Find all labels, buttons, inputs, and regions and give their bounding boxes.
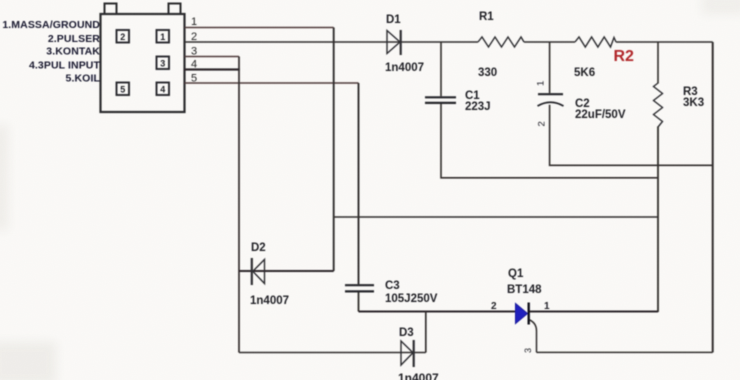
diode D1 [387, 30, 401, 55]
connector cavity 1 [157, 30, 170, 43]
thyristor Q1 (SCR) [516, 303, 529, 325]
wire middle horizontal (pin1 rail to R3 branch) [334, 216, 658, 218]
wire main net segment D (R2 to right corner) [616, 41, 713, 43]
wire Q1 gate lead [529, 320, 537, 353]
wire C1 top lead [440, 42, 442, 96]
wire R3 top lead [657, 42, 659, 84]
wire D3 branch vertical [425, 312, 427, 353]
wire R3 bottom lead down to SCR row [657, 127, 659, 313]
wire D3 row horizontal [239, 352, 426, 354]
wire main net pin2 segment A [185, 41, 401, 43]
wire pin5 horizontal [185, 82, 359, 84]
wire C3 bottom lead [358, 292, 360, 311]
wire pin1 horizontal [185, 27, 334, 29]
wire C2 bottom lead + horizontal to right rail [550, 105, 713, 166]
capacitor C2 (polarized) [538, 94, 564, 106]
connector cavity 3 [157, 57, 170, 70]
wire C2 top lead [549, 42, 551, 93]
wire vertical from pin3/pin4 node down to D3 row [238, 57, 240, 353]
wire SCR row left (C3 to Q1) [359, 311, 517, 313]
capacitor C1 [425, 97, 456, 103]
wire main net segment B (D1 to R1) [401, 41, 479, 43]
wire right rail vertical [712, 42, 714, 352]
resistor R1 [478, 37, 524, 47]
wire C1 bottom lead + horizontal to R3 branch [441, 104, 658, 178]
capacitor C3 [345, 285, 374, 291]
resistor R2 [575, 37, 616, 47]
connector cavity 4 [157, 83, 170, 96]
connector cavity 2 [117, 30, 130, 43]
connector J1 body [101, 4, 185, 113]
connector cavity 5 [117, 83, 130, 96]
wire vertical pin5 down to C3 top [358, 83, 360, 284]
wire vertical from pin1 down to D2 row [333, 28, 335, 272]
diode D2 [252, 258, 265, 285]
wire pin4 horizontal [185, 68, 240, 70]
wire main net segment C (R1 to R2) [524, 41, 575, 43]
wire gate row horizontal to right rail [537, 351, 713, 353]
wire pin3 horizontal [185, 56, 240, 58]
resistor R3 [654, 83, 663, 127]
diode D3 [401, 340, 414, 367]
wire SCR row right (Q1 to R3 branch) [529, 311, 659, 313]
wire D2 row horizontal [239, 270, 334, 272]
